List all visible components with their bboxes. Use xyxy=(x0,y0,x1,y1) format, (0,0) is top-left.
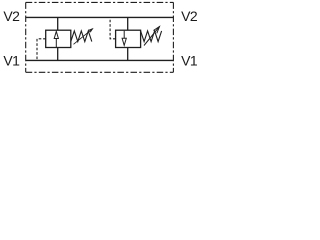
svg-text:V1: V1 xyxy=(3,53,20,69)
enclosure dashed border top xyxy=(26,1,174,3)
svg-text:V2: V2 xyxy=(181,8,198,24)
enclosure dashed border right xyxy=(172,2,174,72)
adjustment arrow left spring xyxy=(74,29,93,45)
wire V2 top line xyxy=(26,16,174,18)
flow arrow left valve (up) xyxy=(54,31,58,47)
wire right valve bottom stem xyxy=(127,48,129,61)
enclosure dashed border bottom xyxy=(26,71,174,73)
wire right valve top stem xyxy=(127,17,129,30)
adjustment arrow right spring xyxy=(144,27,160,46)
wire left valve bottom stem xyxy=(57,48,59,61)
relief valve body left xyxy=(46,30,71,47)
pilot line right valve (dashed to V2) xyxy=(110,17,116,38)
spring left valve xyxy=(71,31,92,42)
svg-text:V2: V2 xyxy=(3,8,20,24)
relief valve body right xyxy=(116,30,141,47)
wire left valve top stem xyxy=(57,17,59,30)
enclosure dashed border left xyxy=(25,2,27,72)
wire V1 bottom line xyxy=(26,59,174,61)
flow arrow right valve (down) xyxy=(122,31,126,46)
pilot line left valve (dashed to V1) xyxy=(37,39,46,61)
svg-text:V1: V1 xyxy=(181,53,198,69)
spring right valve xyxy=(141,31,162,42)
